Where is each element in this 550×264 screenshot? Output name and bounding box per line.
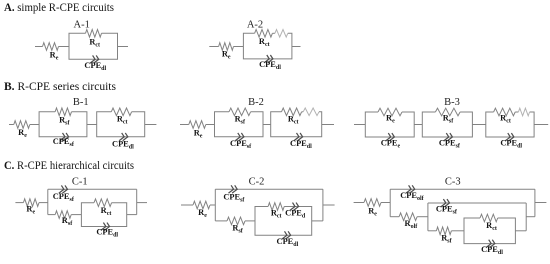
- wire inner parallel loop C-1: [81, 203, 126, 227]
- wire parallel loop 1 B-2: [215, 112, 264, 137]
- svg-text:C-2: C-2: [249, 176, 265, 187]
- CPE CPEdl (C-2): [277, 231, 299, 248]
- resistor Rct (A-2): [255, 30, 273, 49]
- Warburg element W (B-2): [303, 108, 319, 116]
- CPE CPEdl (B-2): [290, 133, 312, 150]
- wire parallel loop 1 B-3: [365, 112, 414, 137]
- wire A-1 to parallel box: [59, 46, 70, 48]
- svg-text:C. R-CPE hierarchical circuits: C. R-CPE hierarchical circuits: [4, 158, 134, 172]
- resistor Rolf (C-3): [399, 213, 418, 230]
- wire C-3 outer right vertical: [534, 189, 536, 217]
- wire parallel loop 3 B-3: [486, 112, 534, 137]
- wire C-1 bottom branch lead: [48, 214, 55, 216]
- wire C-3 input: [354, 202, 364, 204]
- wire inner parallel loop C-2: [255, 207, 312, 236]
- svg-text:C-1: C-1: [72, 177, 88, 188]
- wire B-2 output: [322, 124, 334, 126]
- CPE CPEsf (C-1): [53, 185, 75, 203]
- wire C-3 outer left vertical: [389, 189, 391, 217]
- wire C-2 to inner box: [245, 220, 255, 222]
- svg-text:A-2: A-2: [247, 20, 263, 31]
- wire C-1 to node: [39, 202, 48, 204]
- wire B-1 link 2: [87, 124, 97, 126]
- wire A-2 input: [209, 46, 218, 48]
- wire C-2 input: [181, 204, 193, 206]
- wire Rct to W (A-2): [272, 32, 275, 34]
- resistor Re (A-2): [219, 43, 234, 61]
- svg-text:A. simple R-CPE circuits: A. simple R-CPE circuits: [4, 0, 114, 14]
- wire C-3 to level2 node: [417, 216, 428, 218]
- wire parallel loop 2 B-3: [422, 112, 472, 137]
- wire C-2 left branch vertical: [214, 189, 216, 221]
- wire B-3 link 2: [472, 124, 485, 126]
- wire B-3 link 1: [414, 124, 422, 126]
- wire C-1 inner to right node: [127, 214, 137, 216]
- wire C-3 level2 top branch: [428, 202, 526, 204]
- wire C-3 to node: [381, 202, 390, 204]
- resistor Re (C-2): [193, 201, 210, 219]
- CPE CPEdl (B-1): [112, 133, 134, 151]
- resistor Re (B-2): [189, 121, 206, 140]
- svg-text:B-1: B-1: [73, 97, 89, 108]
- wire C-2 output: [323, 204, 335, 206]
- Warburg element W (A-2): [275, 30, 288, 38]
- wire C-3 level2 bottom lead: [428, 230, 437, 232]
- wire C-2 inner to right node: [312, 220, 323, 222]
- wire B-1 input: [9, 124, 14, 126]
- wire C-3 output: [535, 202, 547, 204]
- resistor Rsf (B-1): [55, 108, 71, 127]
- wire C-1 output: [137, 202, 147, 204]
- wire B-1 output: [145, 124, 157, 126]
- CPE CPEdl (C-1): [96, 223, 118, 239]
- wire inner parallel loop C-3: [464, 218, 515, 244]
- wire parallel loop A-2: [243, 33, 292, 59]
- resistor Rsf (C-1): [55, 211, 73, 227]
- wire B-2 link 2: [263, 124, 271, 126]
- resistor Re (C-1): [23, 199, 39, 216]
- wire Rct to W (B-2): [302, 111, 304, 113]
- wire B-2 link 1: [206, 124, 215, 126]
- wire C-2 right branch vertical: [322, 189, 324, 221]
- wire C-3 inner to level2 right node: [515, 230, 526, 232]
- wire C-1 top branch: [48, 188, 137, 190]
- CPE CPEe (B-3): [381, 133, 401, 149]
- resistor Re (A-1): [43, 43, 59, 62]
- CPE CPEsf (B-3): [439, 133, 461, 149]
- wire C-2 bottom branch lead: [215, 220, 227, 222]
- resistor Re (C-3): [364, 199, 381, 218]
- wire A-1 input: [35, 46, 43, 48]
- wire A-1 output: [118, 46, 129, 48]
- CPE CPEdl (A-1): [84, 55, 106, 71]
- svg-text:A-1: A-1: [74, 20, 90, 31]
- wire parallel loop 2 B-2: [271, 112, 322, 137]
- CPE CPEd (C-2): [285, 203, 306, 220]
- CPE CPEsf (B-2): [230, 133, 252, 150]
- svg-text:B-2: B-2: [248, 97, 264, 108]
- resistor Rct (B-3): [494, 108, 516, 125]
- wire B-1 link 1: [30, 124, 39, 126]
- resistor Rct (A-1): [86, 30, 102, 49]
- wire C-2 to node: [210, 204, 215, 206]
- wire C-1 to inner box: [71, 214, 81, 216]
- resistor Re (B-1): [14, 121, 30, 139]
- resistor Rsf (B-2): [229, 108, 251, 125]
- wire C-3 level1 bottom lead: [390, 216, 399, 218]
- Warburg element W (B-3): [518, 108, 529, 116]
- wire A-2 to parallel box: [234, 46, 244, 48]
- CPE CPEdl (C-3): [481, 240, 503, 256]
- wire C-1 input: [15, 202, 23, 204]
- svg-text:B-3: B-3: [444, 97, 460, 108]
- svg-text:C-3: C-3: [445, 176, 461, 187]
- wire C-3 outer top branch: [390, 188, 535, 190]
- CPE CPEdl (B-3): [500, 133, 522, 149]
- wire parallel loop A-1: [69, 33, 118, 59]
- wire parallel loop 2 B-1: [97, 112, 145, 137]
- wire C-3 to inner box: [451, 230, 464, 232]
- resistor Rsf (C-2): [227, 217, 245, 235]
- wire Rct to W (B-3): [515, 111, 518, 113]
- wire C-3 level2 right vertical: [525, 203, 527, 231]
- wire C-1 right branch vertical: [136, 189, 138, 214]
- resistor Rct (B-1): [111, 108, 131, 126]
- CPE CPEdl (A-2): [259, 55, 281, 71]
- CPE CPEsf (C-2): [223, 185, 245, 203]
- wire C-3 level2 left vertical: [427, 203, 429, 231]
- resistor Rsf (B-3): [435, 108, 460, 125]
- wire A-2 output: [292, 46, 301, 48]
- wire C-3 level2 to outer right node: [526, 216, 535, 218]
- resistor Re (B-3): [378, 108, 402, 125]
- resistor Rct (B-2): [282, 108, 302, 125]
- wire B-3 output: [534, 124, 548, 126]
- resistor Rsf (C-3): [436, 227, 452, 245]
- resistor Rct (C-3): [480, 214, 498, 232]
- CPE CPEsf (C-3): [436, 199, 458, 216]
- wire B-2 input: [180, 124, 189, 126]
- wire C-1 left branch vertical: [47, 189, 49, 214]
- wire parallel loop 1 B-1: [39, 112, 87, 137]
- svg-text:B. R-CPE series circuits: B. R-CPE series circuits: [4, 79, 116, 93]
- wire B-3 input: [354, 124, 365, 126]
- wire C-2 top branch: [215, 188, 323, 190]
- resistor Rct (C-2): [268, 203, 284, 220]
- CPE CPEolf (C-3): [400, 185, 424, 202]
- CPE CPEsf (B-1): [53, 133, 75, 148]
- resistor Rct (C-1): [94, 199, 112, 217]
